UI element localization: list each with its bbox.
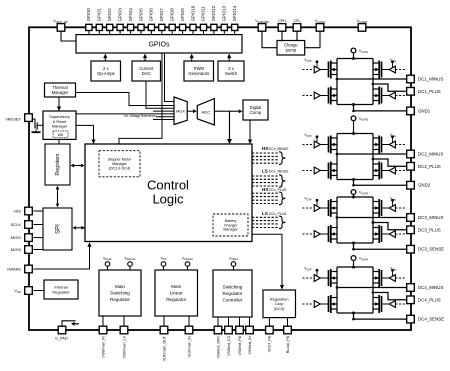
svg-text:Main: Main <box>171 284 181 289</box>
wire drive signal <box>303 144 315 146</box>
wire DC4 left column lower <box>336 288 338 314</box>
pin VLINmain_IN <box>185 326 193 334</box>
wire ADC to digital comp <box>230 110 240 112</box>
node VSUP2 terminal <box>351 116 369 134</box>
svg-text:nSS: nSS <box>13 208 21 213</box>
node HS DCx_PLUS bundle <box>252 187 287 205</box>
svg-text:Manager: Manager <box>223 228 238 232</box>
wire DC2 left column lower <box>336 154 338 180</box>
svg-text:Manager: Manager <box>52 90 69 95</box>
svg-text:DC2_PLUS: DC2_PLUS <box>418 164 441 169</box>
wire GPIOs to MUX <box>165 53 175 102</box>
wire gate <box>382 277 390 279</box>
svg-text:nRESET: nRESET <box>5 117 21 122</box>
wire thermal to supervisory <box>58 97 60 108</box>
svg-text:VSWext_CS: VSWext_CS <box>227 335 231 356</box>
svg-text:DC3_PLUS: DC3_PLUS <box>418 227 441 232</box>
node V<tspan font-size="2.4" dy="0.7">SWext</tspan> terminal <box>229 256 239 270</box>
wire gate <box>382 95 390 97</box>
wire GPIO2 stub <box>109 31 111 36</box>
svg-text:HS: HS <box>262 187 268 192</box>
wire DC2 top rail <box>337 133 373 135</box>
regulation loop block <box>263 290 296 318</box>
svg-text:Manager: Manager <box>52 124 68 129</box>
svg-text:GPIO4: GPIO4 <box>128 8 133 22</box>
svg-text:VSWext_FB: VSWext_FB <box>238 335 242 355</box>
transistor Q1B high-side right <box>373 61 382 79</box>
svg-text:WD: WD <box>58 133 64 137</box>
svg-text:Switching: Switching <box>110 291 130 296</box>
pin GND2 <box>407 181 415 189</box>
pin GPIO11 <box>200 24 206 30</box>
watchdog sub-block <box>53 131 68 137</box>
node HS DCx_MINUS bundle <box>252 146 289 164</box>
wire nWAKE to control logic <box>34 245 90 269</box>
svg-text:Regulator: Regulator <box>166 297 186 302</box>
chip boundary <box>29 27 411 330</box>
op-amp U4D gate driver <box>382 301 407 308</box>
ADC <box>197 99 214 125</box>
wire DC4 right column <box>372 267 374 313</box>
wire MUX input <box>153 110 174 112</box>
op-amp U1A gate driver <box>303 58 329 73</box>
wire supervisory to control logic <box>76 125 94 140</box>
pin RLoop_FB <box>284 326 292 334</box>
pin GPIO5 <box>138 24 144 30</box>
wire gate <box>320 277 328 279</box>
wire drive signal <box>303 303 315 305</box>
wire block to GPIOs <box>191 57 193 61</box>
pin GPIO3 <box>117 24 123 30</box>
svg-text:GPIO1: GPIO1 <box>97 8 102 22</box>
wire CPH stub <box>281 32 283 41</box>
wire DC3 left column upper <box>336 197 338 218</box>
arrow into regulation loop <box>280 285 284 290</box>
svg-text:SPI: SPI <box>56 224 62 234</box>
pin MOSI <box>25 246 33 254</box>
pin GPIO9 <box>180 24 186 30</box>
wire epad symbol <box>62 321 76 326</box>
wire DC3 left column lower <box>336 218 338 244</box>
arrow digital comp into control logic <box>248 140 252 145</box>
pin CPH <box>278 24 286 32</box>
arrow into stepper motor manager <box>117 146 121 151</box>
pin GPIO14 <box>232 24 238 30</box>
node V<tspan font-size="2.4" dy="0.7">Plin</tspan> terminal <box>160 256 167 270</box>
svg-text:VSWext_DRV: VSWext_DRV <box>216 335 220 358</box>
wire gate <box>320 144 328 146</box>
transistor Q3D low-side right <box>373 225 382 243</box>
wire DC4 bottom rail <box>337 312 373 314</box>
wire int voltage reference to MUX <box>76 113 174 115</box>
transistor Q4A high-side left <box>329 269 338 287</box>
wire VSWext_CS stub <box>228 317 230 326</box>
transistor Q3C low-side left <box>329 225 338 243</box>
main switching regulator block <box>99 270 141 316</box>
node VSUP4 terminal <box>351 256 369 267</box>
node LS DCx_MINUS bundle <box>252 168 289 187</box>
pin DC3_MINUS <box>407 214 415 222</box>
svg-text:GND1: GND1 <box>418 108 431 113</box>
pin VGPIO_SW <box>57 24 65 32</box>
wire drive signal <box>395 233 406 235</box>
pin GND1 <box>407 107 415 115</box>
svg-text:VSWmain_LX: VSWmain_LX <box>122 335 126 358</box>
svg-text:Logic: Logic <box>152 192 184 207</box>
svg-text:DCx_PLUS: DCx_PLUS <box>269 212 287 216</box>
wire gate <box>320 303 328 305</box>
wire drive signal <box>395 144 406 146</box>
wire block to GPIOs <box>228 57 230 61</box>
svg-text:GPIO10: GPIO10 <box>190 5 195 21</box>
svg-text:VSWext_IN: VSWext_IN <box>248 336 252 355</box>
wire GPIO14 stub <box>234 31 236 36</box>
pin VSUP12 <box>316 24 324 32</box>
wire RLoop_FB stub <box>287 318 289 326</box>
svg-text:DCx_MINUS: DCx_MINUS <box>269 147 289 151</box>
arrow up into GPIOs <box>103 54 107 59</box>
wire ADC to control logic <box>229 111 231 139</box>
op-amp U4C gate driver <box>303 301 329 308</box>
wire drive signal <box>395 277 406 279</box>
wire VSWext_FB stub <box>239 317 241 326</box>
wire gate <box>320 170 328 172</box>
svg-text:Charger: Charger <box>224 223 238 227</box>
pin GPIO10 <box>190 24 196 30</box>
wire gate <box>320 233 328 235</box>
PWM generators block <box>184 61 214 81</box>
wire DC2_PLUS <box>373 159 406 166</box>
op-amp U3D gate driver <box>382 231 407 238</box>
op-amp U4B gate driver <box>382 267 407 282</box>
pin GPIO0 <box>86 24 92 30</box>
svg-text:Manager: Manager <box>112 162 127 166</box>
svg-text:DAC: DAC <box>142 71 151 76</box>
wire VSWmain_LX stub <box>123 316 125 326</box>
op-amp U3A gate driver <box>303 197 329 212</box>
wire VDC4_FB stub <box>268 318 270 326</box>
transistor Q2B high-side right <box>373 136 382 154</box>
battery charger manager block <box>213 214 248 236</box>
wire DC3 right column <box>372 197 374 243</box>
wire VGPIO_SW to GPIOs box <box>61 32 76 41</box>
pin GPIO8 <box>169 24 175 30</box>
pin DC2_PLUS <box>407 163 415 171</box>
wire DC1_PLUS <box>373 84 406 91</box>
svg-text:Registers: Registers <box>55 153 61 175</box>
svg-text:GPIO11: GPIO11 <box>201 6 206 22</box>
switching regulator controller block <box>213 270 252 317</box>
op-amp U2C gate driver <box>303 167 329 174</box>
wire DC4_PLUS <box>373 293 406 300</box>
svg-text:(DC3 & DC4): (DC3 & DC4) <box>109 166 131 170</box>
wire block to GPIOs <box>144 57 146 61</box>
stepper motor manager block <box>99 151 140 177</box>
wire VSWext_DRV stub <box>217 317 219 326</box>
wire nRESET to transistor <box>33 119 35 124</box>
transistor Q4C low-side left <box>329 295 338 313</box>
op-amp U2D gate driver <box>382 167 407 174</box>
wire DC4 top rail <box>337 266 373 268</box>
svg-text:Regulator: Regulator <box>52 289 70 294</box>
pin GPIO4 <box>128 24 134 30</box>
wire MISO <box>34 237 44 239</box>
pin VSWext_FB <box>236 326 244 334</box>
pin VSWext_IN <box>246 326 254 334</box>
supervisory reset manager block <box>43 111 76 139</box>
svg-text:GPIO8: GPIO8 <box>170 8 175 22</box>
wire CPL stub <box>296 32 298 41</box>
pin VLINmain_OUT <box>160 326 168 334</box>
svg-text:DC4_MINUS: DC4_MINUS <box>418 285 443 290</box>
op-amp U4A gate driver <box>303 267 329 282</box>
wire SPI-control logic double arrow <box>75 227 83 229</box>
transistor Q3B high-side right <box>373 199 382 217</box>
wire to ground <box>35 130 37 132</box>
svg-text:Controller: Controller <box>223 298 243 303</box>
op-amps block <box>91 61 121 81</box>
svg-text:GPIO5: GPIO5 <box>138 8 143 22</box>
wire DC1 left column upper <box>336 59 338 80</box>
transistor Q2D low-side right <box>373 162 382 180</box>
wire DC1 right column <box>372 59 374 105</box>
switch block <box>218 61 244 81</box>
svg-text:Main: Main <box>115 284 125 289</box>
pin GPIO2 <box>107 24 113 30</box>
arrow into control logic <box>91 140 95 145</box>
internal regulator block <box>44 280 78 299</box>
pin CPL <box>293 24 301 32</box>
svg-text:SCLK: SCLK <box>11 222 22 227</box>
wire DC3_MINUS <box>337 217 406 219</box>
wire block to GPIOs <box>104 57 106 61</box>
wire thermal manager to MUX <box>76 93 175 106</box>
svg-text:(DC4): (DC4) <box>274 306 285 311</box>
pin nSS <box>25 207 33 215</box>
svg-text:VLINmain_OUT: VLINmain_OUT <box>162 335 166 361</box>
wire DC1 left column lower <box>336 79 338 105</box>
wire GND2 <box>354 180 407 186</box>
pin VCHPUMP <box>258 24 266 32</box>
pin GPIO6 <box>148 24 154 30</box>
control logic block <box>85 144 252 242</box>
pin GPIO13 <box>221 24 227 30</box>
svg-text:MOSI: MOSI <box>11 247 21 252</box>
transistor Q1A high-side left <box>329 61 338 79</box>
wire DC2 bottom rail <box>337 179 373 181</box>
wire GPIO13 stub <box>223 31 225 36</box>
wire MUX input <box>153 119 174 121</box>
main linear regulator block <box>155 270 198 316</box>
svg-text:GND2: GND2 <box>418 183 431 188</box>
pin GPIO7 <box>159 24 165 30</box>
wire DC3 bottom rail <box>337 242 373 244</box>
pin VSWmain_LX <box>120 326 128 334</box>
pin VSWext_CS <box>225 326 233 334</box>
wire DC3 top rail <box>337 196 373 198</box>
node LS DCx_PLUS bundle <box>252 211 287 229</box>
svg-text:GPIO12: GPIO12 <box>211 5 216 21</box>
pin E_PAD <box>58 326 66 334</box>
wire drive signal <box>303 277 315 279</box>
op-amp U3B gate driver <box>382 197 407 212</box>
svg-text:Comp: Comp <box>250 110 262 115</box>
svg-text:ADC: ADC <box>202 110 211 115</box>
pin DC3_SENSE <box>407 245 415 253</box>
wire ADC output <box>214 110 229 112</box>
op-amp U3C gate driver <box>303 231 329 238</box>
op-amp U2A gate driver <box>303 133 329 148</box>
svg-text:Battery: Battery <box>225 219 237 223</box>
wire gate <box>382 207 390 209</box>
svg-text:DC3_SENSE: DC3_SENSE <box>418 247 444 252</box>
wire GPIO10 stub <box>192 31 194 36</box>
pin nWAKE <box>25 265 33 273</box>
wire MUX to ADC <box>187 110 194 112</box>
wire VLINmain_OUT stub <box>163 316 165 326</box>
wire GPIO4 stub <box>130 31 132 36</box>
wire VSUP12 to charge pump <box>305 32 320 48</box>
transistor Q1C low-side left <box>329 87 338 105</box>
wire gate <box>320 207 328 209</box>
svg-text:VDC4_FB: VDC4_FB <box>268 335 272 352</box>
wire drive signal <box>395 95 406 97</box>
svg-text:HS: HS <box>262 146 268 151</box>
wire nSS <box>34 210 44 212</box>
wire gate <box>320 95 328 97</box>
pin nRESET <box>25 114 33 122</box>
svg-text:DC1_MINUS: DC1_MINUS <box>418 77 443 82</box>
transistor Q2C low-side left <box>329 162 338 180</box>
node VSUP3 terminal <box>351 190 369 197</box>
svg-text:DCx_MINUS: DCx_MINUS <box>269 169 289 173</box>
wire GPIO12 stub <box>213 31 215 36</box>
wire VLINmain_IN stub <box>188 316 190 326</box>
wire VSWext_IN stub <box>249 317 251 326</box>
svg-text:VSWmain_IN: VSWmain_IN <box>101 336 105 358</box>
wire DC3_PLUS <box>373 223 406 230</box>
wire DC1 top rail <box>337 58 373 60</box>
wire drive signal <box>303 170 315 172</box>
wire drive signal <box>395 303 406 305</box>
wire transistor to supervisory <box>37 124 43 126</box>
svg-text:Linear: Linear <box>170 291 183 296</box>
wire gate <box>382 303 390 305</box>
svg-text:DC2_MINUS: DC2_MINUS <box>418 152 443 157</box>
svg-text:DC4_SENSE: DC4_SENSE <box>418 317 444 322</box>
pin VDD <box>25 287 33 295</box>
pin VDC4_FB <box>266 326 274 334</box>
wire DC1_MINUS <box>337 78 406 80</box>
svg-text:pump: pump <box>286 48 297 53</box>
wire supervisory to registers <box>58 139 60 143</box>
pin GPIO1 <box>96 24 102 30</box>
svg-text:Switch: Switch <box>225 71 238 76</box>
node V<tspan font-size="2.4" dy="0.7">LINmain</tspan> terminal <box>182 256 194 270</box>
svg-text:Op-Amps: Op-Amps <box>97 71 115 76</box>
arrow up into GPIOs <box>227 54 231 59</box>
svg-text:DC1_PLUS: DC1_PLUS <box>418 89 441 94</box>
wire GPIO1 stub <box>98 31 100 36</box>
wire drive signal <box>303 233 315 235</box>
wire GPIO6 stub <box>150 31 152 36</box>
svg-text:MUX: MUX <box>176 109 185 114</box>
svg-text:RLoop_FB: RLoop_FB <box>286 335 290 353</box>
wire DC1 bottom rail <box>337 104 373 106</box>
current DAC block <box>132 61 161 81</box>
digital comparator block <box>243 100 268 120</box>
multiplexer MUX <box>174 97 187 125</box>
wire drive signal <box>395 69 406 71</box>
arrow nWAKE into control logic <box>87 242 91 247</box>
svg-text:GPIO2: GPIO2 <box>107 8 112 22</box>
node V<tspan font-size="2.4" dy="0.7">Pmain</tspan> terminal <box>103 256 113 270</box>
wire drive signal <box>303 69 315 71</box>
wire current DAC to MUX <box>146 81 174 108</box>
svg-text:GPIO3: GPIO3 <box>117 8 122 22</box>
arrow up into GPIOs <box>143 54 147 59</box>
charge pump block <box>277 41 305 56</box>
op-amp U2B gate driver <box>382 133 407 148</box>
wire drive signal <box>303 95 315 97</box>
pin DC1_PLUS <box>407 88 415 96</box>
transistor Q2A high-side left <box>329 136 338 154</box>
wire GPIO9 stub <box>182 31 184 36</box>
pin DC1_MINUS <box>407 75 415 83</box>
pin VSWext_DRV <box>214 326 222 334</box>
pin DC4_MINUS <box>407 284 415 292</box>
wire gate <box>320 69 328 71</box>
wire gate <box>382 233 390 235</box>
svg-text:Control: Control <box>147 178 189 193</box>
wire GPIO11 stub <box>203 31 205 36</box>
svg-text:Generators: Generators <box>188 71 209 76</box>
pin SCLK <box>25 221 33 229</box>
registers block <box>45 144 70 185</box>
svg-text:E_PAD: E_PAD <box>55 337 67 341</box>
wire DC4 left column upper <box>336 267 338 288</box>
transistor Q1D low-side right <box>373 87 382 105</box>
pin DC2_MINUS <box>407 150 415 158</box>
pin VSWmain_IN <box>99 326 107 334</box>
wire DC2 right column <box>372 134 374 180</box>
node VSUP1 terminal <box>351 48 369 58</box>
wire GND1 <box>354 105 407 111</box>
pin DC3_PLUS <box>407 226 415 234</box>
transistor Q3A high-side left <box>329 199 338 217</box>
wire drive signal <box>395 207 406 209</box>
wire GPIO8 stub <box>171 31 173 36</box>
wire gate <box>382 144 390 146</box>
svg-text:Int. Voltage Reference: Int. Voltage Reference <box>124 114 156 118</box>
svg-text:Switching: Switching <box>223 285 243 290</box>
wire control logic to regulation loop <box>252 234 282 286</box>
op-amp U1C gate driver <box>303 92 329 99</box>
svg-text:CPL: CPL <box>294 19 301 23</box>
wire MOSI <box>34 249 44 251</box>
transistor Q4D low-side right <box>373 295 382 313</box>
wire SCLK <box>34 224 44 226</box>
wire VSWmain_IN stub <box>102 316 104 326</box>
op-amp U1D gate driver <box>382 92 407 99</box>
svg-text:CPH: CPH <box>278 19 286 23</box>
wire DC2 left column upper <box>336 134 338 155</box>
wire gate <box>382 69 390 71</box>
wire GPIO7 stub <box>161 31 163 36</box>
svg-text:nWAKE: nWAKE <box>7 266 21 271</box>
SPI block <box>43 208 72 250</box>
wire VCHPUMP to charge pump <box>262 32 277 48</box>
